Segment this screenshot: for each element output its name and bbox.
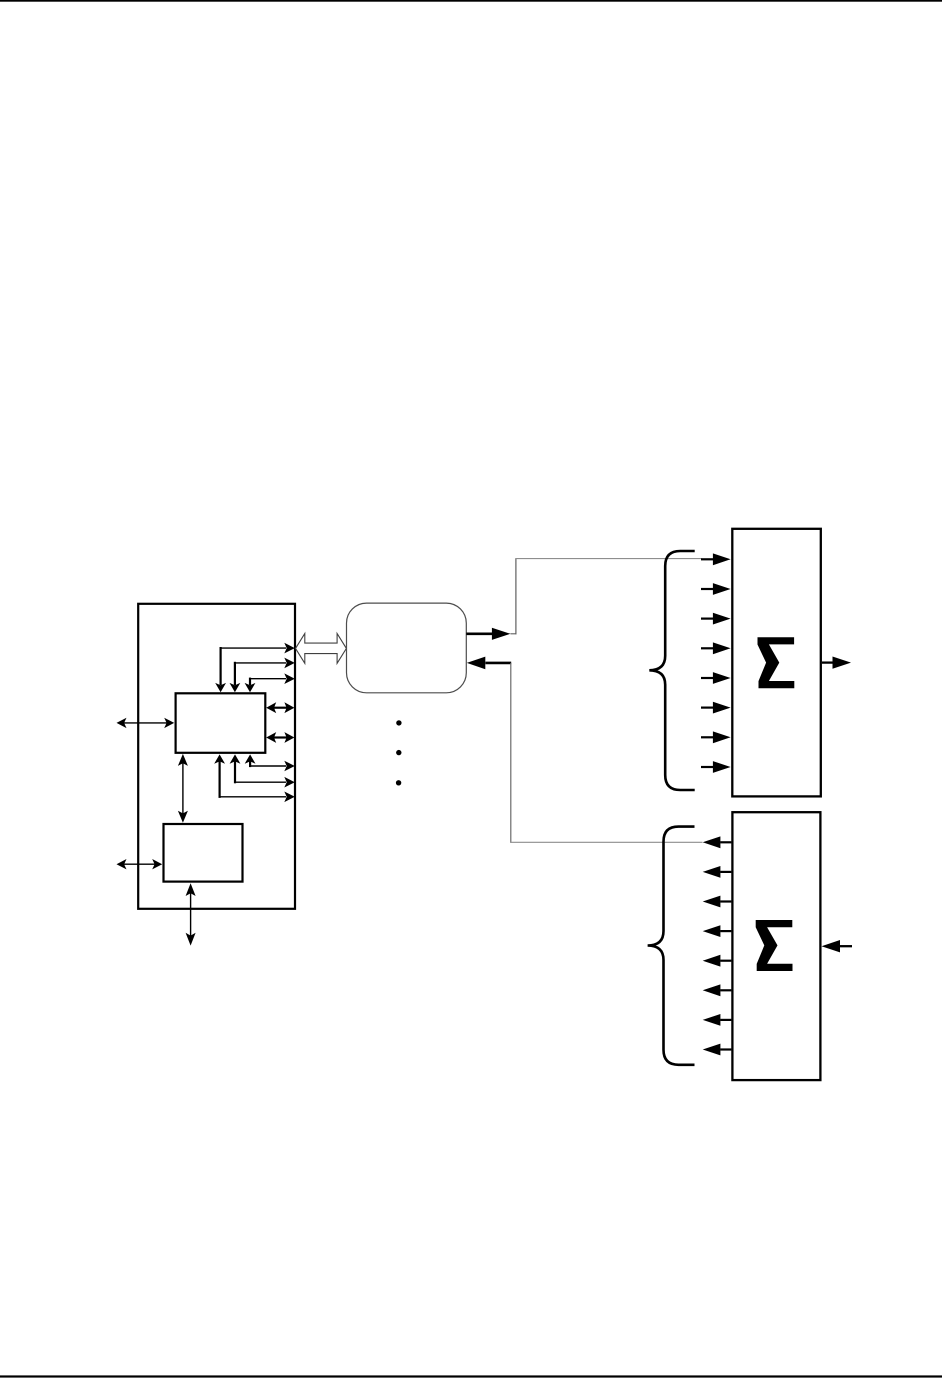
lower summer output arrow 4 [703,925,732,937]
sigma symbol (upper summer) [758,637,795,688]
sigma symbol (lower summer) [756,920,793,971]
wire bus line B2 (bent, from block A bottom to right edge) [230,754,295,787]
bidirectional arrow into block A left [117,718,175,728]
upper summer input arrow 4 [701,642,731,654]
lower summer output arrow 2 [703,866,732,878]
upper summer output arrow [822,657,851,669]
wire bus line T3 (bent, to right edge and down into block A) [245,673,295,692]
lower summer output arrow 6 [703,984,732,996]
wire bus line T2 (bent, to right edge and down into block A) [230,658,295,693]
bidirectional arrow between block A and block B [178,754,188,823]
upper brace [649,551,694,790]
bubble output arrow (thick) [466,628,510,640]
hollow bidirectional interface arrow [296,634,347,664]
upper summer input arrow 5 [701,672,731,684]
wire bus line B1 (bent, from block A bottom to right edge) [245,754,295,771]
wire bus line T1 (bent, to right edge and down into block A) [215,643,295,692]
lower summer output arrow 1 [703,836,732,848]
ellipsis dots [396,720,402,785]
register block B [164,824,243,882]
bidirectional arrow into block B left [117,859,163,869]
lower brace [648,827,695,1065]
upper summer input arrow 8 [701,761,731,773]
page top border rule [0,0,942,2]
upper summer input arrow 7 [701,731,731,743]
lower summer output arrow 5 [703,955,732,967]
lower summer input arrow (right side) [822,940,853,952]
bubble input arrow (thick) [467,657,511,670]
lower summer block [732,812,820,1080]
connector wire riser from lower summer [510,663,702,843]
upper summer input arrow 6 [701,702,731,714]
bidirectional bus arrow D1 (block A to right edge) [266,702,294,713]
lower summer output arrow 8 [703,1044,732,1056]
interface bubble (rounded rect) [347,603,467,693]
upper summer input arrow 1 [701,553,731,565]
upper summer input arrow 3 [701,613,731,625]
upper summer block [732,529,821,797]
controller outer block [138,604,295,909]
page bottom border rule [0,1375,942,1377]
register block A [176,693,266,753]
lower summer output arrow 7 [703,1014,732,1026]
bidirectional bus arrow D2 (block A to right edge) [266,732,294,743]
bidirectional arrow below block B (external) [186,883,196,945]
lower summer output arrow 3 [703,896,732,908]
connector wire riser to upper summer [510,558,701,634]
upper summer input arrow 2 [701,583,731,595]
wire bus line B3 (bent, from block A bottom to right edge) [214,754,295,802]
